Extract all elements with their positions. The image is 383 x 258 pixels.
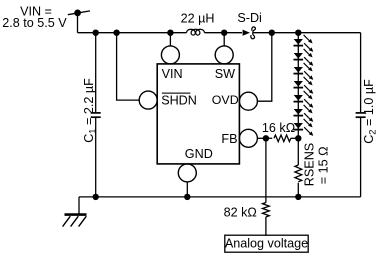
junction dot SHDN branch: [113, 30, 119, 36]
svg-text:SHDN: SHDN: [161, 93, 197, 107]
pin circle SW: [215, 46, 233, 64]
wire from terminal down to top rail: [77, 13, 79, 33]
svg-text:VIN: VIN: [162, 67, 183, 81]
LED D1: [294, 35, 314, 52]
svg-text:2.8 to 5.5 V: 2.8 to 5.5 V: [2, 16, 67, 30]
junction dot bottom C1: [93, 194, 99, 200]
wire bottom rail: [79, 196, 361, 198]
wire 82k to analog voltage box: [265, 217, 267, 236]
svg-text:GND: GND: [185, 147, 213, 161]
wire 82k branch from FB node: [265, 138, 267, 202]
wire right rail lower: [360, 118, 362, 197]
junction dot SW pin branch: [221, 30, 227, 36]
svg-text:S-Di: S-Di: [237, 11, 262, 25]
svg-text:16 kΩ: 16 kΩ: [262, 121, 295, 135]
junction dot LED chain top: [295, 30, 301, 36]
ground: [63, 215, 87, 227]
junction dot FB node: [263, 135, 269, 141]
wire 16k to LED chain: [291, 137, 299, 139]
wire C1 branch lower: [95, 118, 97, 197]
wire SW pin stub: [223, 33, 225, 46]
svg-text:= 15 Ω: = 15 Ω: [317, 146, 331, 184]
capacitor C2: [356, 113, 366, 117]
pin circle VIN: [161, 46, 179, 64]
pin circle FB: [239, 129, 257, 147]
IC U1 body: [157, 64, 239, 164]
resistor 16 kOhm: [274, 135, 291, 142]
wire from diode to top right corner: [253, 32, 361, 34]
svg-text:22 µH: 22 µH: [181, 11, 215, 25]
svg-text:82 kΩ: 82 kΩ: [224, 206, 257, 220]
wire top rail left section: [78, 32, 187, 34]
inductor L1 22 uH: [187, 29, 205, 35]
capacitor C1: [91, 113, 101, 117]
junction dot VIN pin branch: [167, 30, 173, 36]
svg-text:C2 = 1.0 µF: C2 = 1.0 µF: [362, 79, 378, 144]
junction dot OVD branch: [269, 30, 275, 36]
pin label SHDN with overline: [161, 93, 197, 107]
wire VIN pin stub: [169, 33, 171, 46]
wire ground branch: [78, 197, 80, 214]
resistor RSENS 15 Ohm: [295, 165, 302, 182]
wire FB to node: [257, 137, 272, 139]
node Analog voltage box: [225, 235, 308, 252]
svg-text:FB: FB: [221, 132, 237, 146]
wire right rail upper: [360, 33, 362, 113]
junction dot bottom GND: [184, 194, 190, 200]
svg-text:Analog voltage: Analog voltage: [225, 236, 308, 250]
LED D4: [294, 77, 314, 94]
wire SHDN branch: [117, 33, 140, 100]
wire between inductor and diode: [205, 32, 243, 34]
wire GND pin stub: [186, 182, 188, 197]
LED D5: [294, 91, 314, 108]
svg-text:SW: SW: [215, 67, 235, 81]
LED D3: [294, 63, 314, 80]
wire C1 branch upper: [95, 33, 97, 113]
junction dot bottom RSENS: [295, 194, 301, 200]
pin circle GND: [178, 164, 196, 182]
junction dot C1 branch: [93, 30, 99, 36]
diode S-Di (Schottky): [243, 27, 256, 39]
junction dot LED chain bottom: [295, 135, 301, 141]
resistor 82 kOhm: [263, 203, 270, 217]
pin circle SHDN: [139, 91, 157, 109]
svg-text:RSENS: RSENS: [303, 143, 317, 186]
svg-text:OVD: OVD: [212, 93, 239, 107]
LED D7: [294, 119, 314, 136]
pin circle OVD: [239, 92, 257, 110]
wire LED bottom to RSENS: [297, 138, 299, 165]
node VIN input terminal: [68, 10, 90, 17]
wire RSENS to bottom rail: [297, 183, 299, 197]
wire OVD branch: [257, 33, 271, 102]
wire LED chain spine: [297, 33, 299, 139]
LED D6: [294, 105, 314, 122]
LED D2: [294, 49, 314, 66]
